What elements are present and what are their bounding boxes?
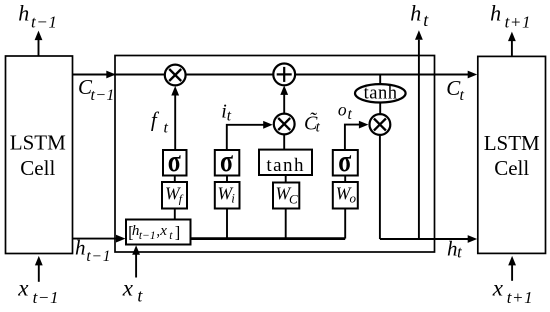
svg-text:t−1: t−1	[31, 12, 58, 31]
sigma box (output gate)	[333, 143, 358, 178]
svg-text:h: h	[447, 237, 458, 261]
svg-text:LSTM: LSTM	[10, 130, 66, 154]
svg-text:h: h	[75, 235, 86, 259]
svg-text:f: f	[151, 107, 160, 131]
inner LSTM cell boundary box	[115, 56, 435, 253]
svg-text:t−1: t−1	[86, 248, 111, 265]
svg-text:t−1: t−1	[91, 87, 115, 104]
label x_(t+1)	[492, 276, 533, 307]
svg-text:t: t	[423, 10, 429, 30]
svg-text:t: t	[227, 107, 232, 124]
weight box W_i	[215, 182, 240, 209]
svg-text:i: i	[231, 190, 235, 205]
add node (cell state update)	[273, 64, 295, 86]
svg-text:tanh: tanh	[364, 83, 398, 103]
label h_(t-1) bottom	[75, 235, 111, 265]
label C_t	[446, 76, 464, 104]
wire: W_f down to concat box	[174, 209, 176, 220]
svg-text:x: x	[492, 276, 504, 301]
concat box [h_(t-1), x_t]	[126, 220, 191, 245]
svg-text:tanh: tanh	[266, 155, 305, 176]
weight box W_f	[162, 182, 187, 209]
wire: h_t line to next cell	[380, 235, 477, 243]
wire: h_(t-1) output arrow top left	[35, 31, 43, 56]
wire: output multiply down to h_t line	[379, 135, 381, 239]
svg-text:C: C	[289, 192, 298, 207]
svg-text:σ: σ	[168, 143, 181, 178]
svg-text:t: t	[137, 285, 143, 305]
wire: sigma_i to W_i	[226, 176, 228, 183]
wire: h_t vertical riser to top output	[415, 30, 423, 239]
svg-text:σ: σ	[220, 143, 233, 178]
label h_t bottom	[447, 237, 462, 262]
svg-text:t: t	[460, 87, 465, 104]
label C_(t-1)	[78, 75, 115, 104]
svg-text:t: t	[164, 120, 169, 137]
svg-text:t−1: t−1	[33, 288, 60, 307]
multiply node (input gate x candidate)	[274, 114, 295, 135]
LSTM cell box (t+1)	[478, 56, 546, 253]
svg-text:LSTM: LSTM	[484, 131, 540, 155]
svg-text:x: x	[17, 276, 29, 301]
wire: x_t input arrow into concat box	[132, 245, 140, 277]
svg-text:t−1: t−1	[139, 230, 156, 242]
tanh activation oval	[355, 83, 406, 103]
sigma box (forget gate)	[163, 143, 187, 178]
wire: W_i down to bus	[226, 209, 228, 239]
label h_(t-1) top	[18, 1, 57, 32]
svg-text:Cell: Cell	[20, 156, 55, 180]
svg-text:]: ]	[175, 222, 181, 241]
svg-text:t: t	[316, 120, 321, 136]
label o_t	[338, 100, 353, 124]
wire: tanh box to W_C	[285, 175, 287, 183]
wire: tanh oval to output multiply	[379, 103, 381, 115]
svg-text:t: t	[348, 106, 353, 123]
wire: riser from tanh box up to candidate multiply	[283, 134, 285, 149]
wire: x_(t+1) input arrow bottom right	[508, 256, 516, 281]
multiply node (forget gate)	[165, 65, 186, 86]
wire: concat bus to weight boxes	[191, 237, 346, 240]
wire: f_t gate line into multiply node	[171, 86, 179, 150]
wire: C line tap down to tanh oval	[379, 75, 381, 85]
svg-text:t+1: t+1	[507, 288, 534, 307]
wire: W_C down to bus	[285, 209, 287, 239]
wire: sigma_f to W_f	[174, 176, 176, 183]
svg-text:h: h	[490, 1, 501, 26]
tanh box (candidate)	[259, 150, 312, 176]
label C~_t	[304, 111, 321, 136]
sigma box (input gate)	[215, 143, 240, 178]
wire: sigma_o to W_o	[344, 176, 346, 183]
svg-text:σ: σ	[338, 143, 351, 178]
wire: i_t gate line into multiply node	[227, 121, 273, 150]
svg-text:t+1: t+1	[505, 12, 531, 31]
label h_(t+1) top	[490, 1, 531, 32]
svg-text:o: o	[350, 190, 357, 205]
wire: cell state line C_(t-1) to C_t	[73, 71, 478, 79]
svg-text:x: x	[159, 223, 167, 239]
label f_t	[151, 107, 169, 136]
multiply node (output gate x tanh)	[370, 114, 391, 135]
wire: x_(t-1) input arrow bottom left	[35, 256, 43, 282]
label h_t top	[410, 0, 429, 30]
svg-text:x: x	[122, 275, 134, 300]
svg-text:h: h	[18, 1, 29, 26]
svg-text:h: h	[410, 0, 421, 25]
label i_t	[221, 101, 232, 125]
LSTM cell box (t-1)	[6, 56, 73, 254]
svg-text:o: o	[338, 100, 347, 120]
label x_t	[122, 275, 144, 305]
wire: h_(t+1) output arrow top right	[508, 32, 516, 56]
wire: h_(t-1) from previous cell into concat box	[73, 235, 126, 243]
wire: o_t gate line into output multiply	[345, 121, 369, 150]
label x_(t-1)	[17, 276, 59, 307]
svg-text:t: t	[457, 243, 462, 262]
svg-text:Cell: Cell	[494, 156, 529, 180]
weight box W_C	[273, 183, 299, 209]
weight box W_o	[333, 182, 358, 209]
wire: candidate line from multiply into add node	[280, 85, 288, 113]
wire: W_o down to bus	[344, 209, 346, 239]
